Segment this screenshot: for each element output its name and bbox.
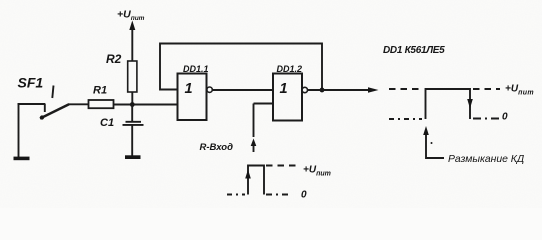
svg-text:DD1.2: DD1.2 xyxy=(277,64,303,74)
svg-text:DD1.1: DD1.1 xyxy=(183,64,209,74)
svg-text:0: 0 xyxy=(301,190,307,201)
svg-text:SF1: SF1 xyxy=(18,75,44,91)
svg-text:DD1 К561ЛЕ5: DD1 К561ЛЕ5 xyxy=(383,45,445,56)
svg-text:C1: C1 xyxy=(100,117,114,129)
svg-text:Размыкание КД: Размыкание КД xyxy=(448,154,525,165)
svg-text:0: 0 xyxy=(502,112,508,123)
svg-text:R2: R2 xyxy=(106,52,122,66)
svg-text:R-Вход: R-Вход xyxy=(200,142,234,153)
svg-text:1: 1 xyxy=(280,81,288,97)
svg-text:1: 1 xyxy=(185,81,193,97)
svg-text:R1: R1 xyxy=(93,85,107,97)
